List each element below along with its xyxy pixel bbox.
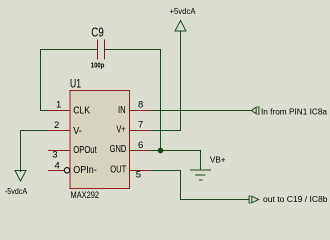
- svg-text:GND: GND: [110, 143, 127, 155]
- svg-text:6: 6: [138, 140, 143, 151]
- wire pin6 GND to ground symbol: [151, 151, 201, 171]
- svg-text:VB+: VB+: [210, 155, 226, 165]
- svg-text:-5vdcA: -5vdcA: [5, 186, 28, 196]
- svg-text:CLK: CLK: [73, 105, 90, 117]
- pin 4 inverting bubble: [64, 168, 69, 173]
- pin 1: [48, 110, 70, 112]
- svg-text:OPIn-: OPIn-: [73, 164, 97, 176]
- svg-text:5: 5: [136, 169, 141, 180]
- pin 2: [48, 130, 70, 132]
- svg-text:V-: V-: [73, 125, 82, 137]
- IC U1 MAX292 body: [70, 91, 130, 189]
- pin 7: [130, 130, 151, 132]
- svg-text:OPOut: OPOut: [73, 144, 96, 156]
- svg-text:1: 1: [56, 99, 61, 110]
- pin 6: [130, 150, 151, 152]
- input terminal: [252, 107, 259, 114]
- wire pin7 V+ to +5vdcA: [151, 31, 181, 131]
- output terminal: [249, 196, 259, 203]
- svg-text:3: 3: [52, 150, 57, 161]
- svg-text:2: 2: [54, 120, 59, 131]
- svg-text:7: 7: [138, 120, 143, 131]
- pin 4: [48, 170, 64, 172]
- svg-text:100p: 100p: [91, 61, 105, 70]
- svg-text:C9: C9: [91, 25, 104, 39]
- svg-text:In from PIN1 IC8a: In from PIN1 IC8a: [261, 106, 327, 116]
- pin 5: [130, 170, 151, 172]
- capacitor C9: [98, 40, 105, 60]
- wire pin2 V- to -5vdcA: [21, 131, 49, 173]
- pin 8: [130, 110, 151, 112]
- svg-text:8: 8: [138, 99, 143, 110]
- svg-text:U1: U1: [70, 77, 81, 91]
- junction dot: [158, 148, 164, 154]
- wire pin1 to C9 left plate: [41, 50, 98, 111]
- svg-text:+5vdcA: +5vdcA: [170, 6, 196, 16]
- wire pin5 OUT to output terminal: [151, 171, 250, 200]
- wire pin8 IN to input terminal: [151, 110, 252, 112]
- power symbol +5vdcA: [175, 21, 186, 32]
- svg-text:MAX292: MAX292: [71, 190, 100, 200]
- svg-text:IN: IN: [118, 104, 126, 116]
- pin 3: [48, 150, 70, 152]
- svg-text:4: 4: [55, 161, 60, 172]
- wire C9 right plate to GND net: [105, 50, 161, 151]
- svg-text:V+: V+: [116, 123, 125, 135]
- svg-text:out to C19 / IC8b: out to C19 / IC8b: [263, 194, 328, 204]
- power symbol -5vdcA: [15, 171, 26, 182]
- svg-text:OUT: OUT: [110, 164, 127, 176]
- ground: [190, 170, 211, 180]
